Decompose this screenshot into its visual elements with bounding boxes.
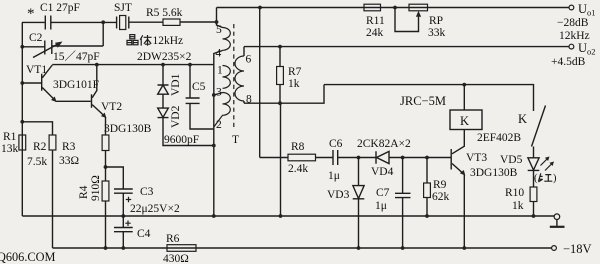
transistor VT2 3DG130B xyxy=(92,65,152,135)
svg-text:+4.5dB: +4.5dB xyxy=(551,56,586,68)
node relay coil junction xyxy=(462,83,466,87)
wire top oscillator loop y=22 xyxy=(22,21,217,23)
svg-text:R9: R9 xyxy=(433,179,447,191)
node C4 bottom rail junction xyxy=(121,246,125,250)
node VT1 base junction xyxy=(20,81,24,85)
wire mid ground rail xyxy=(22,215,554,217)
svg-text:−18V: −18V xyxy=(563,242,592,256)
capacitor C5 9600pF xyxy=(164,65,214,146)
wire bottom -18V rail xyxy=(53,247,552,249)
svg-text:1μ: 1μ xyxy=(375,200,387,212)
svg-text:3DG130B: 3DG130B xyxy=(104,123,152,135)
switch K contact xyxy=(477,106,546,147)
node VD1 top junction xyxy=(161,63,165,67)
node C5 top junction xyxy=(188,63,192,67)
label jingti 12kHz chinese xyxy=(127,35,152,46)
svg-text:C7: C7 xyxy=(376,187,390,199)
svg-text:): ) xyxy=(553,173,557,184)
svg-text:(: ( xyxy=(534,173,538,184)
svg-text:VD5: VD5 xyxy=(500,154,523,166)
svg-text:VD3: VD3 xyxy=(327,189,350,201)
node VT2 collector junction xyxy=(95,63,99,67)
svg-text:R8: R8 xyxy=(291,141,305,153)
resistor R4 910ohm xyxy=(78,167,109,248)
svg-text:R2: R2 xyxy=(33,141,47,153)
svg-text:R3: R3 xyxy=(62,141,76,153)
terminal Uo2 xyxy=(551,41,596,68)
node C2 left junction xyxy=(20,45,24,49)
node VD2/C5 return junction xyxy=(212,144,216,148)
svg-text:VT2: VT2 xyxy=(101,101,122,113)
wire detector drop x=260 xyxy=(259,8,261,158)
wire C2 branch xyxy=(22,22,103,46)
svg-text:R11: R11 xyxy=(366,15,385,27)
svg-text:2EF402B: 2EF402B xyxy=(477,132,521,144)
wire detector line y=157.5 xyxy=(260,157,451,159)
svg-text:1k: 1k xyxy=(288,78,300,90)
label crystal 12kHz xyxy=(153,35,184,47)
transformer T secondary winding xyxy=(235,47,252,106)
node R7 top junction xyxy=(278,45,282,49)
svg-text:Uo1: Uo1 xyxy=(578,2,596,18)
svg-text:910Ω: 910Ω xyxy=(90,175,102,201)
svg-text:33k: 33k xyxy=(428,27,446,39)
resistor R6 430ohm xyxy=(163,233,196,264)
resistor R7 1k xyxy=(277,47,302,104)
wire relay rail y=84.5 xyxy=(324,85,534,111)
resistor R3 33ohm xyxy=(59,117,109,167)
svg-text:1: 1 xyxy=(217,65,223,77)
svg-text:13k: 13k xyxy=(1,143,19,155)
capacitor C4 xyxy=(114,216,151,248)
wire C3 stub xyxy=(106,167,124,189)
wire pin8 line y=103 xyxy=(244,85,324,104)
svg-text:−28dB: −28dB xyxy=(557,17,589,29)
wire collector bus y=64.5 xyxy=(52,64,214,66)
transistor VT3 3DG130B xyxy=(451,130,517,249)
svg-text:K: K xyxy=(460,114,469,128)
svg-text:2CK82A×2: 2CK82A×2 xyxy=(357,138,411,150)
node transformer mid-rail junction xyxy=(212,214,216,218)
capacitor C6 1u xyxy=(328,138,343,182)
resistor R8 2.4k xyxy=(288,141,316,175)
terminal -18V xyxy=(552,242,592,256)
svg-text:430Ω: 430Ω xyxy=(163,253,189,264)
svg-text:Uo2: Uo2 xyxy=(578,41,596,57)
diode VD3 xyxy=(327,158,364,249)
node R3/R4/C3 junction xyxy=(104,165,108,169)
svg-text:R5 5.6k: R5 5.6k xyxy=(146,7,183,19)
relay K coil box xyxy=(400,94,482,130)
svg-text:C2: C2 xyxy=(29,32,43,44)
node pin3 tap junction xyxy=(212,93,216,97)
wire pin5 lead xyxy=(217,8,223,28)
capacitor C2 variable 15/47pF xyxy=(29,32,100,63)
svg-text:22μ25V×2: 22μ25V×2 xyxy=(130,203,180,215)
wire transformer tap vertical xyxy=(214,51,223,217)
node C7 bottom rail junction xyxy=(401,246,405,250)
svg-text:2.4k: 2.4k xyxy=(288,163,308,175)
svg-text:12kHz: 12kHz xyxy=(153,35,184,47)
transformer T primary winding xyxy=(214,24,239,146)
svg-text:3DG130B: 3DG130B xyxy=(470,167,518,179)
svg-text:1μ: 1μ xyxy=(328,170,340,182)
svg-text:7.5k: 7.5k xyxy=(27,156,47,168)
capacitor C7 1u xyxy=(375,158,411,249)
svg-text:3: 3 xyxy=(216,87,222,99)
diode VD1 zener xyxy=(158,65,183,108)
svg-text:VT1: VT1 xyxy=(26,64,47,76)
crystal SJT xyxy=(114,2,132,30)
svg-text:4: 4 xyxy=(216,48,222,60)
wire pin3 stub xyxy=(214,93,223,96)
svg-text:2DW235×2: 2DW235×2 xyxy=(137,51,192,63)
resistor R5 5.6k xyxy=(146,7,183,25)
svg-text:2: 2 xyxy=(216,119,222,131)
node R4 bottom rail junction xyxy=(104,246,108,250)
node R9 mid-rail junction xyxy=(425,214,429,218)
wire left vertical rail xyxy=(21,22,23,216)
capacitor C3 22u xyxy=(114,186,180,216)
node C3 mid-rail junction xyxy=(121,214,125,218)
diode VD4 xyxy=(371,151,394,178)
svg-text:9600pF: 9600pF xyxy=(164,134,199,146)
svg-text:T: T xyxy=(232,134,239,146)
wire R2 stub xyxy=(22,122,52,135)
node RP wiper junction xyxy=(393,6,397,10)
svg-text:3DG101F: 3DG101F xyxy=(53,79,99,91)
svg-text:RP: RP xyxy=(429,15,443,27)
wire Uo2 line y=46.5 xyxy=(244,46,569,48)
svg-text:R6: R6 xyxy=(166,233,180,245)
node VT3 emitter bottom rail junction xyxy=(462,246,466,250)
svg-text:R4: R4 xyxy=(78,185,90,199)
svg-text:VD4: VD4 xyxy=(371,166,394,178)
svg-text:5: 5 xyxy=(216,24,222,36)
svg-text:SJT: SJT xyxy=(114,2,132,14)
resistor R1 13k xyxy=(1,131,26,155)
potentiometer RP 33k xyxy=(395,4,446,39)
node R10 mid-rail junction xyxy=(532,214,536,218)
resistor R10 1k xyxy=(505,187,537,216)
node R5 to pin5 junction xyxy=(215,20,219,24)
wire relay coil lead xyxy=(463,85,465,110)
node C7 branch junction xyxy=(401,156,405,160)
led VD5 red xyxy=(500,147,554,188)
svg-text:K: K xyxy=(518,112,527,126)
node R7 drop mid-rail junction xyxy=(279,214,283,218)
node VD3 branch junction xyxy=(357,156,361,160)
svg-text:33Ω: 33Ω xyxy=(59,155,79,167)
wire R7 ground drop xyxy=(280,103,282,216)
svg-text:C4: C4 xyxy=(137,228,151,240)
svg-text:6: 6 xyxy=(246,54,252,66)
node VD3 bottom rail junction xyxy=(357,246,361,250)
node top rail to detector junction xyxy=(258,6,262,10)
svg-text:R7: R7 xyxy=(288,66,302,78)
svg-text:R10: R10 xyxy=(505,187,524,199)
svg-text:24k: 24k xyxy=(366,27,384,39)
capacitor C1 xyxy=(27,2,80,30)
resistor R2 7.5k xyxy=(27,135,56,248)
wire top rail y=7.5 xyxy=(217,7,570,9)
wire VT1 emitter to VT2 base xyxy=(56,100,91,102)
svg-text:C1 27pF: C1 27pF xyxy=(40,2,80,14)
svg-text:Q606.COM: Q606.COM xyxy=(0,250,55,264)
resistor R9 62k xyxy=(424,158,450,217)
terminal Uo1 xyxy=(557,2,596,42)
svg-text:VD2: VD2 xyxy=(170,105,182,128)
ground terminal xyxy=(550,214,565,227)
svg-text:*: * xyxy=(27,6,35,22)
svg-text:15／47pF: 15／47pF xyxy=(53,50,100,63)
resistor R11 24k xyxy=(364,4,385,39)
svg-text:VT3: VT3 xyxy=(466,152,487,164)
transistor VT1 3DG101F xyxy=(22,64,99,102)
transformer core dashed line xyxy=(233,24,235,130)
node R2 stub junction xyxy=(20,120,24,124)
svg-text:C6: C6 xyxy=(329,138,343,150)
diode VD2 zener xyxy=(158,105,214,145)
svg-text:VD1: VD1 xyxy=(170,73,182,96)
svg-text:C3: C3 xyxy=(140,186,154,198)
svg-text:1k: 1k xyxy=(512,200,524,212)
label hong chinese red xyxy=(534,173,557,184)
svg-text:C5: C5 xyxy=(192,81,206,93)
svg-text:R1: R1 xyxy=(3,131,17,143)
node R9 branch junction xyxy=(425,156,429,160)
svg-text:JRC−5M: JRC−5M xyxy=(400,94,446,108)
node R7 bottom junction xyxy=(278,101,282,105)
node C2/C1 top junction xyxy=(101,20,105,24)
label 2DW235x2 xyxy=(137,51,192,63)
svg-text:62k: 62k xyxy=(432,191,450,203)
